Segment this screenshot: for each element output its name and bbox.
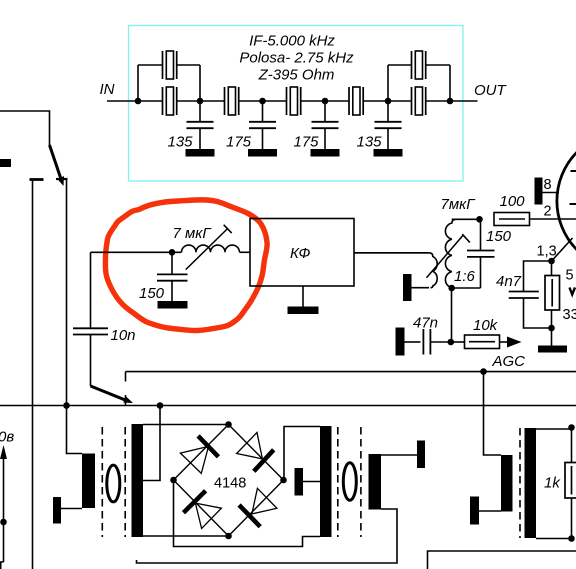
capacitor 150 (left) [157, 252, 188, 301]
wire IN to first node [107, 100, 163, 102]
svg-text:7мкГ: 7мкГ [441, 196, 477, 213]
tube envelope circle [557, 131, 576, 270]
svg-text:47n: 47n [413, 315, 438, 332]
T1 core dashed line 1 [101, 427, 103, 537]
capacitor 175 (second) [249, 101, 276, 149]
ground bar under C175a [248, 149, 277, 157]
wire bridge R up to T2 [284, 427, 320, 481]
wire T1 bottom to bridge [143, 535, 229, 537]
switch S2 upper contact stub [125, 372, 127, 382]
svg-text:4148: 4148 [214, 476, 246, 492]
ground bar of 47n [396, 328, 405, 356]
T3 secondary winding bar [525, 428, 537, 538]
switch S2 arrowhead [123, 396, 133, 403]
node dot A1 [135, 98, 142, 105]
diode D4 [239, 488, 277, 526]
capacitor 4n7 branch wires [524, 261, 552, 291]
switch S1 arrowhead [57, 176, 64, 186]
T1 primary ground bar [53, 497, 61, 524]
switch S2 lower contact stub [125, 395, 127, 406]
node dot bus-T1 tap [157, 402, 164, 409]
wire T1 top to bridge [143, 424, 229, 426]
node dot A5 [385, 98, 392, 105]
T1 toroid ellipse [107, 465, 120, 502]
svg-text:Z-395 Ohm: Z-395 Ohm [258, 67, 335, 84]
red marker loop [105, 200, 267, 331]
svg-text:8: 8 [544, 177, 552, 193]
capacitor 135 (first) [187, 101, 214, 149]
T1 core dashed line 2 [124, 427, 126, 537]
KF box [250, 219, 354, 287]
wire T1 ground link [61, 508, 82, 510]
bottom right box corner [428, 551, 576, 569]
svg-text:0в: 0в [0, 429, 14, 446]
node dot 47n/10k [448, 339, 455, 346]
svg-text:4n7: 4n7 [496, 273, 522, 290]
node dot bridge L [170, 477, 177, 484]
wire vertical x=66.5 [66, 180, 68, 406]
svg-text:1:6: 1:6 [454, 268, 476, 285]
node dot TR top [476, 216, 483, 223]
ground bar under C150 [158, 301, 188, 309]
crystal X4 [349, 87, 363, 115]
node dot bridge R [280, 477, 287, 484]
T3 primary ground bar [470, 497, 479, 525]
capacitor 150 (right) [467, 219, 495, 288]
switch S1 left contact [30, 178, 44, 181]
wire bridge L down around [174, 480, 321, 547]
T2 primary ground bar [295, 468, 304, 496]
node dot A2 [197, 98, 204, 105]
capacitor 4n7 [509, 292, 539, 299]
crystal X6 [163, 51, 177, 79]
4n7 lower wires [524, 298, 552, 328]
bridge edge T-R [229, 425, 284, 481]
transformer TR primary coil [354, 253, 437, 288]
bridge edge L-T [174, 425, 229, 481]
node dot bridge B [225, 533, 232, 540]
node dot 1k bottom [568, 535, 575, 542]
T2 toroid ellipse [343, 463, 356, 501]
svg-text:135: 135 [168, 134, 194, 151]
inductor L1 7uH [182, 245, 240, 252]
svg-text:150: 150 [486, 228, 512, 245]
node dot R33 bottom [548, 325, 555, 332]
wire T2 ground link [303, 481, 320, 483]
trimmer arrow of L1 [186, 225, 232, 270]
svg-text:135: 135 [357, 134, 383, 151]
svg-text:150: 150 [139, 285, 165, 302]
crystal X5 [412, 87, 426, 115]
parallel crystal X7 loop wires [388, 65, 450, 101]
svg-text:175: 175 [294, 134, 320, 151]
T1 feed wire [67, 406, 83, 454]
node dot R33 top [548, 258, 555, 265]
resistor 100 [494, 213, 530, 226]
wire vertical x=32.5 [32, 181, 34, 569]
ground bar pin8 [535, 178, 543, 205]
wire TR bottom to cap [452, 287, 481, 289]
capacitor 175 (third) [312, 101, 339, 149]
T2 core dashed line 1 [337, 427, 339, 537]
diode D3 [184, 491, 222, 529]
diode D2 [237, 433, 274, 472]
svg-text:10k: 10k [473, 317, 499, 334]
wire TR bottom down [451, 288, 453, 342]
svg-text:100: 100 [500, 193, 526, 210]
AGC bus wire [126, 371, 576, 373]
T2 secondary winding bar [369, 454, 382, 510]
wire pin8 [543, 192, 560, 194]
transformer TR secondary coil [445, 219, 456, 287]
switch S1 right contact [56, 178, 68, 180]
node dot bus-left [63, 402, 70, 409]
T3 core dashed line [519, 428, 521, 538]
node dot A3 [259, 98, 266, 105]
AGC arrow [507, 337, 522, 348]
wire R100 to tube pin2 [530, 218, 576, 220]
wire X2 to X3 [239, 100, 287, 102]
T1 center tap wire [143, 406, 160, 481]
diode D1 [180, 436, 218, 474]
bridge edge R-B [229, 480, 284, 536]
T3 primary winding bar [501, 455, 513, 512]
capacitor 47n [405, 329, 451, 355]
tube grid dash 2 [570, 203, 576, 205]
wire T2 secondary bottom [137, 509, 398, 563]
svg-text:AGC: AGC [492, 353, 526, 370]
crystal X1 [163, 87, 177, 115]
node dot bridge T [225, 421, 232, 428]
node dot A6 [447, 98, 454, 105]
wire secondary top [452, 218, 480, 220]
wire L1 to KF box [240, 251, 251, 253]
T2 core dashed line 2 [360, 427, 362, 537]
svg-text:1k: 1k [544, 475, 561, 492]
resistor 10k [451, 335, 508, 349]
wire 1k bottom [536, 498, 572, 539]
ground bar at left edge [0, 159, 11, 167]
supply arrow line [0, 445, 7, 569]
parallel crystal X6 loop wires [138, 65, 200, 101]
capacitor 135 (fourth) [375, 101, 402, 149]
crystal X7 [412, 51, 426, 79]
node dot mid [169, 249, 176, 256]
wire X5 to OUT [426, 100, 478, 102]
wire T3 ground link [479, 510, 501, 512]
T2 output terminal bar [417, 441, 425, 469]
ground of KF box [288, 286, 319, 314]
node dot on supply line [0, 519, 7, 526]
svg-text:2: 2 [544, 204, 552, 220]
svg-text:1,3: 1,3 [537, 244, 557, 260]
switch S2 arm [91, 386, 127, 400]
node dot TR bottom [448, 285, 455, 292]
svg-text:Polosa- 2.75 kHz: Polosa- 2.75 kHz [239, 50, 354, 67]
T3 feed wire [484, 372, 502, 455]
wire X4 to X5 [363, 100, 411, 102]
crystal X3 [287, 87, 301, 115]
T1 secondary winding bar [132, 424, 144, 537]
wire X1 to X2 [177, 100, 225, 102]
wire T3 secondary top [536, 429, 572, 463]
bridge edge B-L [174, 480, 229, 536]
wire mid horizontal left [91, 251, 182, 253]
capacitor 10n [73, 252, 108, 386]
ground bar of primary [403, 274, 412, 301]
top-left input wire [0, 111, 50, 145]
switch S1 arm [50, 145, 62, 179]
svg-text:OUT: OUT [474, 82, 508, 99]
crystal X2 [225, 87, 239, 115]
wire X3 to X4 [301, 100, 349, 102]
svg-text:КФ: КФ [290, 245, 310, 262]
wire KF to transformer [354, 252, 428, 254]
T2 primary winding bar [320, 426, 332, 537]
wire pin 1,3 diagonal [553, 238, 573, 260]
svg-text:10n: 10n [111, 327, 136, 344]
node dot 1k top [568, 424, 575, 431]
wire T2 secondary top [381, 454, 417, 456]
svg-text:175: 175 [226, 134, 252, 151]
ground of R33 [538, 328, 567, 353]
tube heater zigzag [570, 288, 576, 295]
resistor 1k [565, 463, 576, 499]
main bus wire [0, 405, 576, 407]
node dot A4 [322, 98, 329, 105]
tube grid dash 1 [571, 170, 576, 172]
ground bar under C135a [186, 149, 215, 157]
svg-text:7 мкГ: 7 мкГ [173, 225, 213, 242]
svg-text:IF-5.000 kHz: IF-5.000 kHz [249, 33, 335, 50]
svg-text:IN: IN [100, 81, 115, 98]
svg-text:5: 5 [566, 268, 574, 284]
node dot AGC bus [480, 368, 487, 375]
svg-text:33: 33 [563, 307, 576, 323]
resistor 33 [545, 261, 560, 328]
T1 primary winding bar [82, 454, 95, 509]
ground bar under C175b [311, 149, 340, 157]
trimmer arrow of TR [427, 234, 470, 278]
ground bar under C135b [374, 149, 403, 157]
filter enclosure box [129, 26, 464, 182]
wire primary to ground [412, 287, 430, 289]
